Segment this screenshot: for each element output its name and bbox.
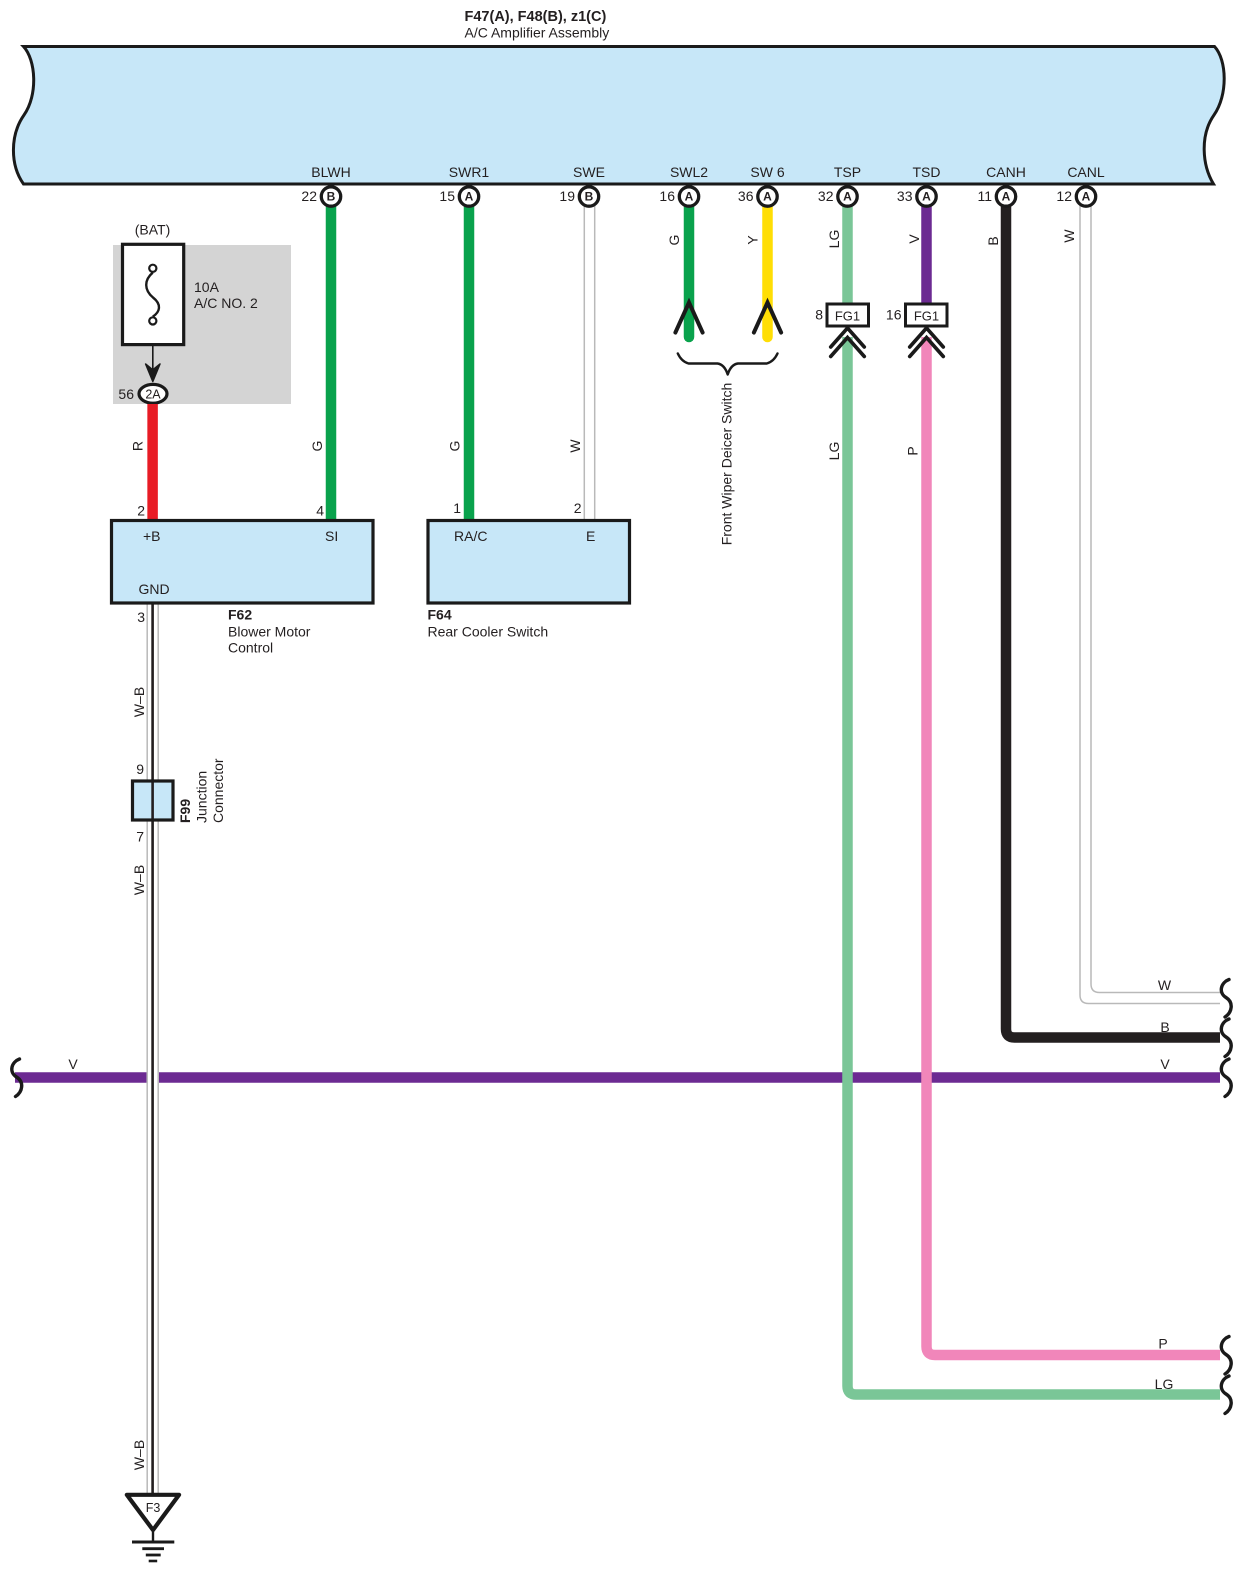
- svg-text:B: B: [585, 190, 594, 204]
- svg-text:TSD: TSD: [913, 164, 941, 180]
- svg-text:2: 2: [137, 503, 145, 519]
- svg-text:V: V: [68, 1056, 78, 1072]
- label F99: [177, 799, 193, 823]
- (BAT) label: [135, 222, 171, 238]
- svg-text:7: 7: [136, 829, 144, 845]
- wire SWE white: [584, 206, 594, 521]
- pin circle SWE 19 B: [559, 187, 598, 206]
- svg-text:Front Wiper Deicer Switch: Front Wiper Deicer Switch: [719, 383, 735, 546]
- pin 9 label: [136, 761, 144, 777]
- svg-text:15: 15: [439, 188, 455, 204]
- svg-text:10A: 10A: [194, 279, 220, 295]
- svg-text:A/C NO. 2: A/C NO. 2: [194, 295, 258, 311]
- svg-text:12: 12: [1056, 188, 1072, 204]
- label P right: [1158, 1336, 1167, 1352]
- svg-text:GND: GND: [139, 581, 170, 597]
- svg-text:TSP: TSP: [834, 164, 861, 180]
- svg-text:Control: Control: [228, 640, 273, 656]
- label W-B (lower): [131, 1440, 147, 1470]
- wire W-B column (F62 GND to ground): [147, 603, 159, 1494]
- ground symbol F3: [127, 1495, 179, 1561]
- svg-text:Rear Cooler Switch: Rear Cooler Switch: [428, 624, 549, 640]
- svg-text:16: 16: [886, 307, 902, 323]
- svg-text:B: B: [327, 190, 336, 204]
- label G (SWL2): [666, 235, 682, 246]
- svg-text:SI: SI: [325, 528, 338, 544]
- F64 rear cooler switch box: [428, 521, 630, 604]
- svg-text:F62: F62: [228, 607, 252, 623]
- label W (SWE): [567, 439, 583, 453]
- connector arrow SWL2: [675, 303, 702, 333]
- svg-text:A: A: [1082, 190, 1091, 204]
- wire R red (2A to F62 +B): [147, 404, 158, 521]
- label LG lower: [826, 442, 842, 461]
- svg-text:A: A: [922, 190, 931, 204]
- F62 blower motor control box: [112, 521, 374, 604]
- svg-text:G: G: [666, 235, 682, 246]
- label F64: [428, 607, 549, 640]
- svg-text:P: P: [905, 446, 921, 455]
- svg-text:V: V: [1160, 1056, 1170, 1072]
- break squiggle V left: [12, 1059, 22, 1097]
- pin 1 label (F64 RA/C): [453, 500, 461, 516]
- wire CANL white: [1080, 206, 1220, 1004]
- label R: [130, 441, 146, 451]
- A/C amplifier assembly band F47/F48/z1: [13, 47, 1224, 185]
- label V left: [68, 1056, 78, 1072]
- svg-text:32: 32: [818, 188, 834, 204]
- pin 7 label: [136, 829, 144, 845]
- svg-text:B: B: [1160, 1019, 1169, 1035]
- svg-text:3: 3: [137, 609, 145, 625]
- pin 16 label: [886, 307, 902, 323]
- label W (CANL): [1061, 229, 1077, 243]
- svg-text:LG: LG: [826, 442, 842, 461]
- svg-text:BLWH: BLWH: [311, 164, 350, 180]
- svg-text:Connector: Connector: [210, 758, 226, 823]
- pin circle BLWH 22 B: [301, 187, 340, 206]
- svg-text:G: G: [446, 441, 462, 452]
- svg-text:E: E: [586, 528, 595, 544]
- label junction connector: [194, 758, 227, 823]
- svg-text:B: B: [985, 236, 1001, 245]
- svg-text:R: R: [130, 441, 146, 451]
- svg-text:9: 9: [136, 761, 144, 777]
- pin 3 label (F62 GND): [137, 609, 145, 625]
- svg-text:W: W: [1158, 977, 1172, 993]
- svg-text:SW 6: SW 6: [750, 164, 784, 180]
- break squiggle V right: [1221, 1059, 1231, 1097]
- connector arrow SW6: [754, 303, 781, 333]
- pin circle CANH 11 A: [977, 187, 1015, 206]
- svg-text:W: W: [567, 439, 583, 453]
- svg-text:11: 11: [977, 188, 992, 204]
- label V upper: [906, 234, 922, 244]
- svg-text:A: A: [685, 190, 694, 204]
- svg-text:P: P: [1158, 1336, 1167, 1352]
- svg-text:A/C Amplifier Assembly: A/C Amplifier Assembly: [465, 25, 610, 41]
- svg-text:4: 4: [316, 503, 324, 519]
- break squiggle P right: [1221, 1337, 1231, 1375]
- svg-text:W–B: W–B: [131, 687, 147, 717]
- pin 4 label (F62 SI): [316, 503, 324, 519]
- svg-text:F99: F99: [177, 799, 193, 823]
- svg-text:19: 19: [559, 188, 575, 204]
- gray battery block: [113, 245, 291, 404]
- svg-text:FG1: FG1: [914, 309, 939, 324]
- svg-text:F64: F64: [428, 607, 452, 623]
- svg-text:W: W: [1061, 229, 1077, 243]
- arrow from fuse to 2A: [146, 345, 160, 382]
- wire TSD P pink lower (to right edge): [927, 337, 1221, 1355]
- svg-text:33: 33: [897, 188, 913, 204]
- wire SW6 yellow stub: [762, 206, 773, 337]
- svg-text:W–B: W–B: [131, 1440, 147, 1470]
- svg-text:2A: 2A: [145, 387, 161, 401]
- svg-text:CANL: CANL: [1067, 164, 1105, 180]
- svg-text:16: 16: [659, 188, 675, 204]
- label B (CANH): [985, 236, 1001, 245]
- svg-text:SWL2: SWL2: [670, 164, 708, 180]
- label Y (SW6): [745, 235, 761, 245]
- svg-text:2: 2: [574, 500, 582, 516]
- wire SWR1 green: [464, 206, 475, 521]
- svg-text:LG: LG: [1155, 1376, 1174, 1392]
- svg-text:SWE: SWE: [573, 164, 605, 180]
- label W right: [1158, 977, 1172, 993]
- svg-text:56: 56: [118, 386, 134, 402]
- svg-text:SWR1: SWR1: [449, 164, 490, 180]
- svg-text:F3: F3: [146, 1501, 161, 1515]
- label front wiper deicer switch: [719, 383, 735, 546]
- label G (SWR1): [446, 441, 462, 452]
- pin circle CANL 12 A: [1056, 187, 1095, 206]
- shield chevrons TSP: [831, 328, 865, 357]
- pin circle TSD 33 A: [897, 187, 936, 206]
- wire BLWH green: [326, 206, 337, 521]
- label W-B (middle): [131, 865, 147, 895]
- svg-text:V: V: [906, 234, 922, 244]
- break squiggle B right: [1221, 1019, 1231, 1057]
- FG1 box TSD: [906, 304, 948, 326]
- svg-text:W–B: W–B: [131, 865, 147, 895]
- junction connector F99: [133, 781, 174, 820]
- break squiggle W right: [1221, 980, 1231, 1018]
- pin labels on band: [311, 164, 1105, 180]
- svg-text:22: 22: [301, 188, 317, 204]
- wire TSP LG upper: [842, 206, 853, 305]
- svg-text:36: 36: [738, 188, 754, 204]
- svg-text:8: 8: [815, 307, 823, 323]
- svg-text:Blower Motor: Blower Motor: [228, 624, 311, 640]
- connector 2A oval: [139, 384, 167, 403]
- wire V purple horizontal (main V bus): [15, 1072, 1220, 1083]
- svg-text:F47(A), F48(B), z1(C): F47(A), F48(B), z1(C): [465, 9, 607, 25]
- label V right: [1160, 1056, 1170, 1072]
- svg-text:Junction: Junction: [194, 771, 210, 823]
- svg-text:Y: Y: [745, 235, 761, 245]
- pin 2 label (F62 +B): [137, 503, 145, 519]
- FG1 box TSP: [827, 304, 869, 326]
- fuse 10A A/C NO.2: [123, 244, 184, 344]
- label F62: [228, 607, 311, 656]
- svg-text:+B: +B: [143, 528, 161, 544]
- pin circle SW6 36 A: [738, 187, 777, 206]
- pin circle SWR1 15 A: [439, 187, 478, 206]
- A/C amplifier assembly title: [465, 9, 610, 41]
- svg-text:G: G: [309, 441, 325, 452]
- svg-text:A: A: [465, 190, 474, 204]
- wire SWL2 green stub: [684, 206, 695, 337]
- wire CANH black: [1006, 206, 1220, 1038]
- label G (BLWH): [309, 441, 325, 452]
- svg-text:1: 1: [453, 500, 461, 516]
- brace front wiper deicer switch: [678, 354, 778, 375]
- label B right: [1160, 1019, 1169, 1035]
- pin 8 label: [815, 307, 823, 323]
- svg-text:A: A: [843, 190, 852, 204]
- label W-B (upper): [131, 687, 147, 717]
- wire TSP LG lower (to right edge): [848, 337, 1221, 1395]
- pin circle TSP 32 A: [818, 187, 857, 206]
- label P lower: [905, 446, 921, 455]
- fuse value label: [194, 279, 258, 311]
- pin 2 label (F64 E): [574, 500, 582, 516]
- pin circle SWL2 16 A: [659, 187, 698, 206]
- svg-text:(BAT): (BAT): [135, 222, 171, 238]
- svg-text:CANH: CANH: [986, 164, 1026, 180]
- label LG upper: [826, 230, 842, 249]
- svg-text:RA/C: RA/C: [454, 528, 487, 544]
- svg-text:LG: LG: [826, 230, 842, 249]
- label LG right: [1155, 1376, 1174, 1392]
- svg-text:FG1: FG1: [835, 309, 860, 324]
- break squiggle LG right: [1221, 1376, 1231, 1414]
- wire TSD V purple upper: [921, 206, 932, 305]
- svg-text:A: A: [1002, 190, 1011, 204]
- pin 56 label: [118, 386, 134, 402]
- svg-text:A: A: [763, 190, 772, 204]
- shield chevrons TSD: [910, 328, 944, 357]
